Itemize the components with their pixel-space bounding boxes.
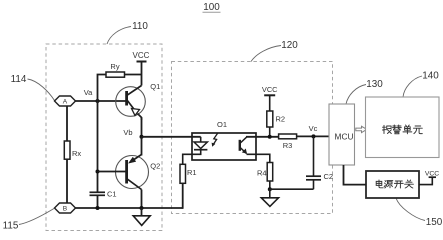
label 115: [3, 209, 54, 232]
wire O1 emitter to R4: [247, 154, 270, 162]
LED inside O1: [183, 137, 208, 165]
char guan: [405, 180, 414, 188]
svg-text:Vb: Vb: [123, 128, 132, 137]
node Vc: [309, 124, 318, 138]
svg-text:VCC: VCC: [262, 85, 278, 94]
node R2 junction: [268, 135, 272, 139]
wire Ry to VCC line: [125, 74, 142, 76]
wire A to Q1 base: [76, 100, 127, 102]
label 114: [11, 74, 55, 101]
char kai: [394, 181, 403, 188]
char yuan2: [384, 181, 393, 188]
svg-text:A: A: [63, 99, 68, 106]
label 150: [396, 198, 443, 228]
wire Vb to Q2 emitter: [141, 137, 143, 156]
svg-text:150: 150: [426, 217, 443, 228]
power switch box 150: [366, 171, 419, 198]
wire R4 down: [269, 181, 271, 189]
resistor Ry: [106, 62, 125, 77]
node Q2 collector rail: [140, 206, 144, 210]
svg-text:Va: Va: [84, 88, 93, 97]
resistor R3: [279, 134, 297, 150]
svg-text:C2: C2: [324, 172, 334, 181]
svg-text:B: B: [63, 206, 68, 213]
transistor Q2: [116, 155, 161, 190]
ground (left): [133, 208, 150, 225]
svg-text:Rx: Rx: [72, 149, 81, 158]
transistor Q1: [116, 82, 161, 120]
alarm unit box 140: [366, 97, 440, 158]
svg-text:Vc: Vc: [309, 124, 318, 133]
label 130: [346, 79, 383, 104]
phototransistor inside O1: [240, 137, 247, 154]
dashed box 110: [46, 44, 162, 231]
wire Q1 emitter to Vb: [141, 118, 143, 137]
svg-text:R3: R3: [283, 141, 293, 150]
wire C2 to ground junction: [270, 188, 314, 190]
wire Va up to Ry: [98, 75, 107, 102]
svg-text:MCU: MCU: [335, 132, 354, 142]
char dan: [403, 125, 412, 134]
node Q2 base junction: [96, 170, 100, 174]
lightning arrow inside O1: [212, 133, 218, 147]
resistor Rx: [64, 141, 81, 159]
wire R2 to collector node: [269, 127, 271, 137]
svg-text:VCC: VCC: [133, 51, 150, 60]
wire Va down to C1: [97, 101, 99, 192]
dashed box 120: [172, 62, 333, 214]
resistor R2: [267, 111, 285, 127]
terminal B: [55, 203, 76, 213]
resistor R4: [257, 163, 273, 182]
VCC symbol (box 110): [133, 51, 150, 86]
capacitor C2: [306, 136, 333, 189]
MCU box U-MCU: [329, 104, 355, 165]
svg-text:140: 140: [422, 71, 439, 82]
wire MCU to power switch: [344, 165, 367, 185]
char yuan: [414, 126, 423, 134]
node Va: [84, 88, 100, 103]
node R4 ground junction: [268, 187, 272, 191]
label 120: [251, 40, 298, 62]
svg-text:100: 100: [203, 2, 220, 13]
label 100: [203, 2, 221, 13]
svg-text:114: 114: [11, 74, 27, 85]
svg-text:Q2: Q2: [150, 162, 160, 171]
terminal A: [55, 96, 76, 106]
label 140: [403, 71, 439, 97]
wire R3 to MCU: [297, 135, 329, 137]
wire Vb to optocoupler: [142, 136, 201, 138]
svg-text:R1: R1: [187, 168, 197, 177]
arrow MCU to alarm: [356, 126, 367, 132]
svg-text:Ry: Ry: [110, 62, 119, 71]
char dian: [376, 180, 383, 188]
resistor R1: [180, 164, 197, 183]
wire R1 to rail: [182, 183, 184, 209]
ground (right): [261, 189, 278, 206]
svg-text:C1: C1: [107, 189, 117, 198]
wire O1 collector to R3: [246, 136, 279, 138]
wire Rx to B: [66, 159, 68, 203]
char jing: [393, 125, 402, 134]
label 110: [107, 21, 148, 44]
optocoupler O1: [192, 120, 256, 160]
capacitor C1: [90, 189, 117, 208]
svg-text:R2: R2: [276, 115, 286, 124]
svg-text:120: 120: [281, 40, 298, 51]
wire B rail: [76, 207, 183, 209]
node C1 bottom: [96, 206, 100, 210]
svg-text:115: 115: [3, 221, 19, 232]
svg-text:Q1: Q1: [150, 82, 160, 91]
svg-text:O1: O1: [217, 120, 227, 129]
VCC symbol (power switch): [419, 171, 439, 185]
svg-text:R4: R4: [257, 169, 267, 178]
svg-text:110: 110: [132, 21, 148, 32]
VCC symbol (R2): [262, 85, 278, 111]
wire junction to Q2 base: [98, 171, 127, 173]
wire Q2 collector down: [141, 190, 143, 209]
wire A down to Rx: [66, 106, 68, 141]
node Vb: [123, 128, 143, 139]
char bao: [383, 125, 392, 133]
svg-text:130: 130: [366, 79, 383, 90]
